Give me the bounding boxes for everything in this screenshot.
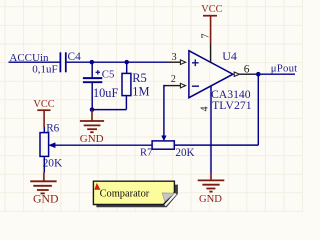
- ground: [198, 173, 225, 205]
- wire: [257, 74, 259, 145]
- capacitor C5: [83, 62, 119, 110]
- svg-text:2: 2: [171, 74, 176, 85]
- capacitor C4: [32, 51, 81, 75]
- svg-text:GND: GND: [33, 192, 59, 206]
- svg-text:VCC: VCC: [201, 4, 222, 15]
- junction: [124, 60, 129, 65]
- svg-text:R6: R6: [46, 122, 59, 134]
- svg-text:3: 3: [172, 52, 177, 63]
- svg-text:C4: C4: [68, 51, 82, 63]
- svg-text:GND: GND: [199, 194, 222, 205]
- wire: [67, 61, 167, 63]
- junction: [256, 72, 261, 77]
- pin 3: [167, 52, 186, 65]
- svg-text:0,1uF: 0,1uF: [32, 63, 57, 75]
- junction: [90, 60, 95, 65]
- pin 2: [166, 74, 186, 88]
- svg-text:Comparator: Comparator: [100, 189, 150, 200]
- resistor R5: [122, 62, 150, 110]
- wire: [253, 73, 295, 75]
- power VCC: [33, 99, 54, 127]
- svg-text:VCC: VCC: [33, 99, 54, 110]
- svg-text:C5: C5: [102, 69, 115, 81]
- pin 4: [200, 86, 212, 173]
- svg-text:GND: GND: [80, 133, 104, 145]
- svg-text:R7: R7: [140, 148, 152, 159]
- svg-text:6: 6: [244, 63, 250, 75]
- potentiometer R7: [140, 136, 195, 159]
- wire: [164, 86, 166, 136]
- wire: [55, 144, 152, 146]
- svg-text:20K: 20K: [43, 158, 63, 170]
- svg-text:7: 7: [201, 34, 212, 39]
- svg-text:R5: R5: [132, 71, 147, 85]
- note Comparator: [93, 181, 177, 207]
- ground: [30, 173, 59, 206]
- power VCC: [201, 4, 222, 44]
- resistor R6: [40, 122, 63, 172]
- op-amp U4: [189, 49, 252, 112]
- svg-text:TLV271: TLV271: [212, 98, 252, 112]
- svg-text:1M: 1M: [132, 84, 149, 98]
- svg-text:4: 4: [200, 107, 211, 112]
- wire: [9, 61, 60, 63]
- svg-text:20K: 20K: [175, 147, 194, 159]
- ground: [80, 110, 104, 146]
- svg-text:μPout: μPout: [271, 62, 298, 74]
- svg-text:10uF: 10uF: [93, 86, 118, 100]
- wire: [92, 109, 126, 111]
- svg-text:U4: U4: [222, 49, 237, 63]
- pin 6: [234, 63, 253, 76]
- pin 7: [201, 34, 212, 63]
- junction: [90, 107, 95, 112]
- wire: [174, 144, 258, 146]
